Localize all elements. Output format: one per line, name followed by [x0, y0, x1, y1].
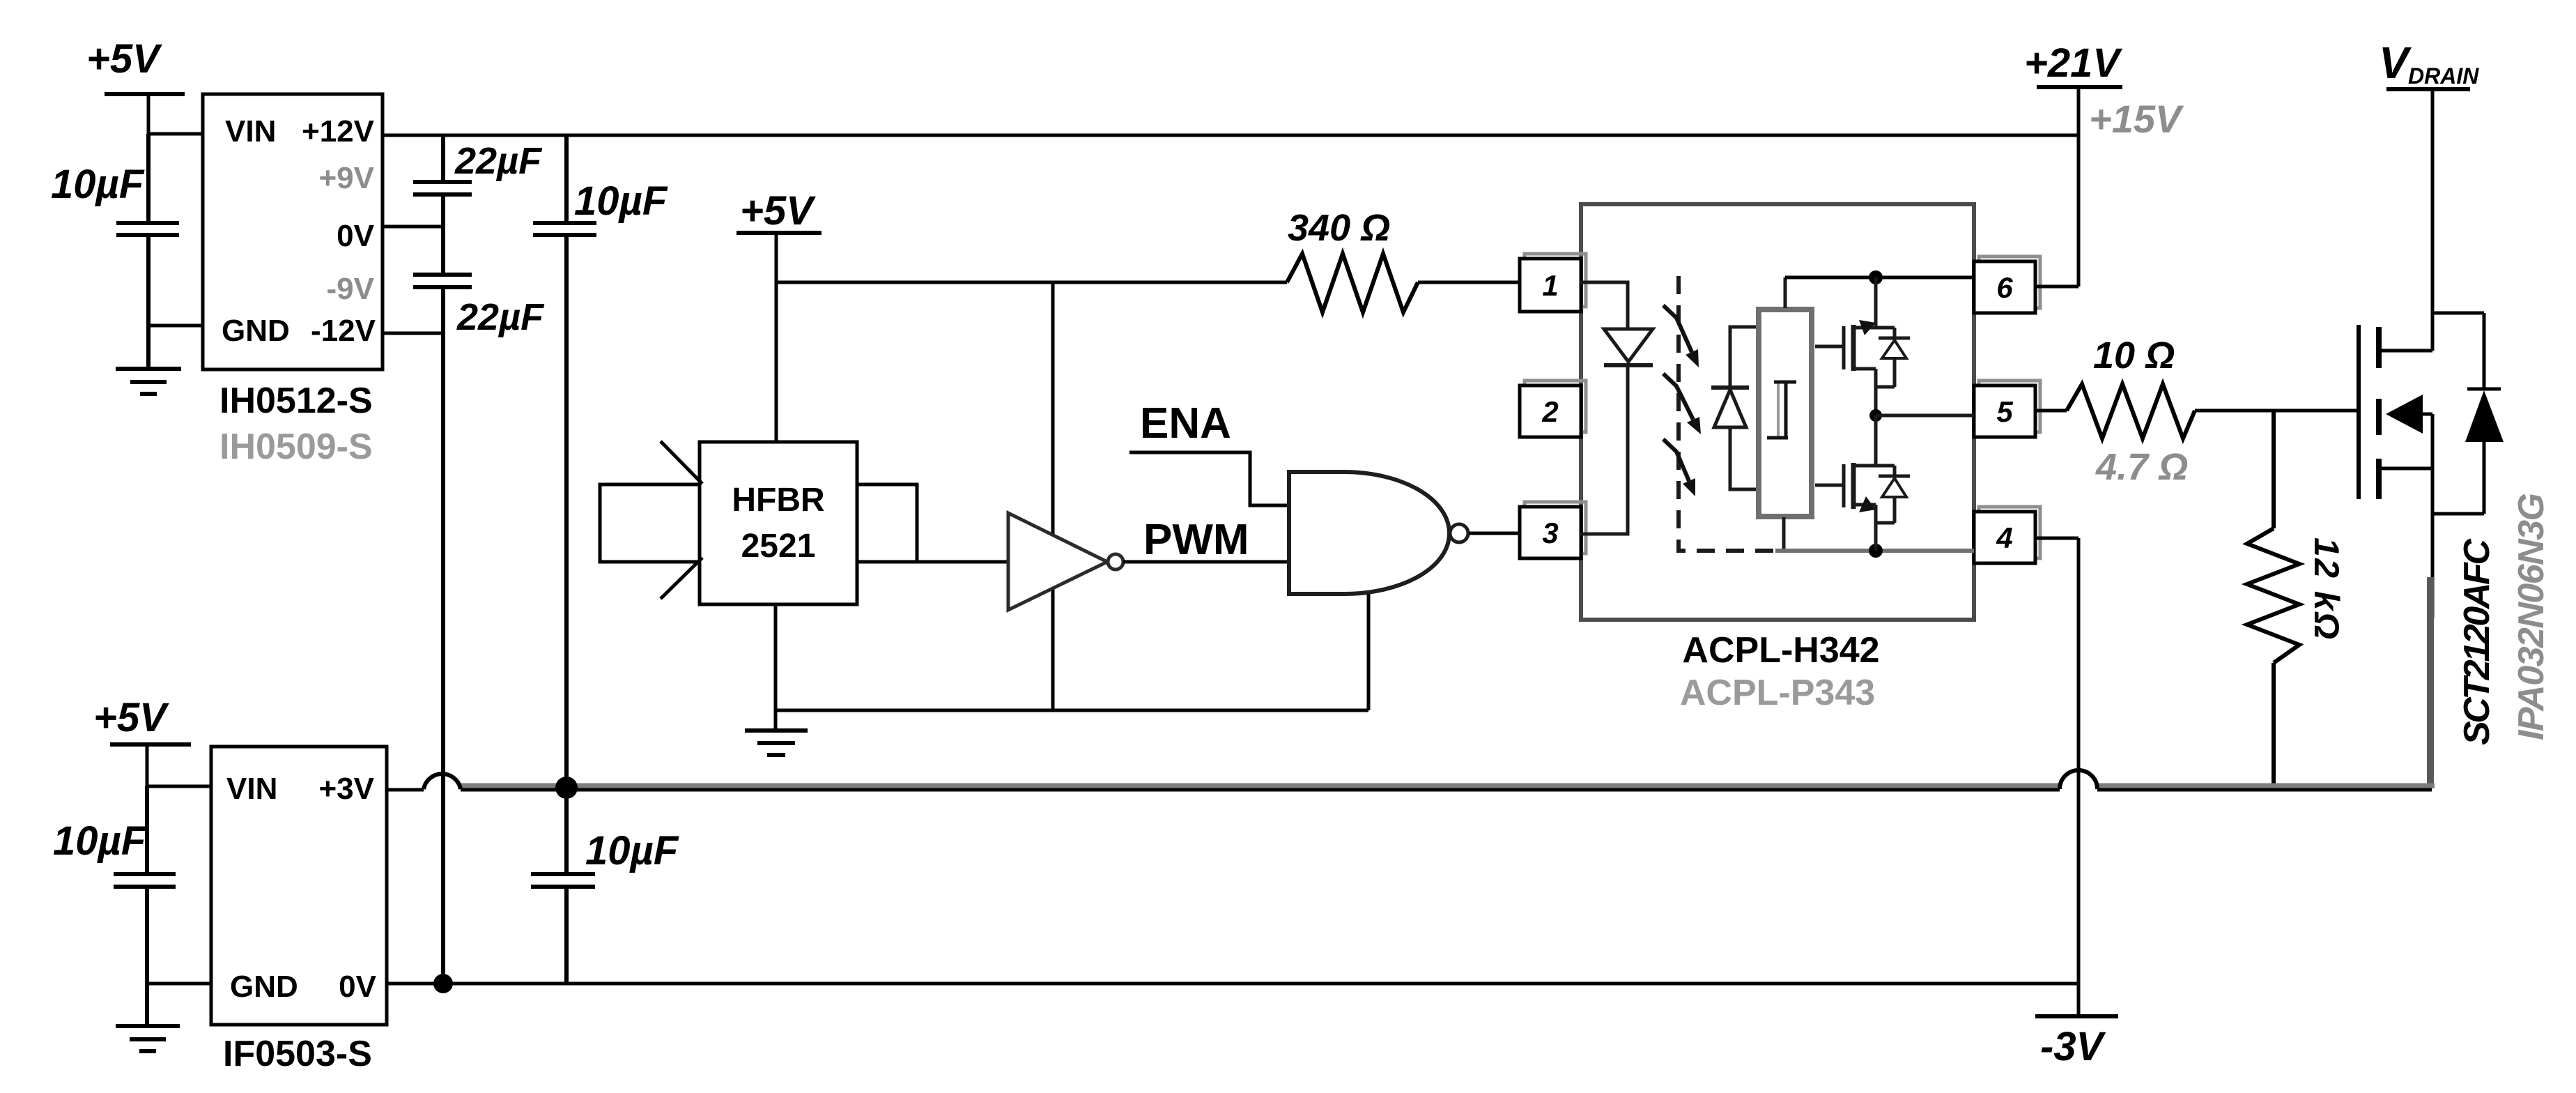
- svg-text:-3V: -3V: [2040, 1024, 2106, 1069]
- svg-text:-12V: -12V: [311, 314, 376, 348]
- pin 1 box: [1520, 254, 1586, 312]
- wire HFBR fiber tick bottom: [661, 558, 702, 599]
- resistor R1 340 ohm: [1287, 207, 1418, 312]
- svg-text:0V: 0V: [337, 219, 374, 253]
- svg-text:GND: GND: [230, 970, 298, 1004]
- DC-DC converter U1 IH0512-S: [203, 94, 383, 467]
- svg-text:10µF: 10µF: [574, 178, 668, 224]
- wire logic ground rail: [776, 709, 1368, 712]
- wire HFBR fiber tick top: [661, 441, 702, 484]
- svg-text:+5V: +5V: [93, 695, 169, 740]
- ground (top-left): [116, 326, 181, 394]
- wire GND pin to rail: [148, 324, 203, 328]
- diode D4 lower body diode: [1876, 466, 1910, 523]
- svg-text:22µF: 22µF: [454, 140, 543, 182]
- wire amp bottom leg: [1782, 517, 1786, 551]
- wire pin5 to R2: [2035, 409, 2067, 413]
- wire pin6 to +21V: [2035, 285, 2078, 289]
- wire photodiode bottom to amp: [1730, 427, 1759, 489]
- wire photodiode top to amp: [1730, 327, 1759, 388]
- wire +5V down to HFBR: [775, 282, 778, 442]
- wire R1 to pin1: [1418, 281, 1520, 284]
- svg-text:DRAIN: DRAIN: [2408, 63, 2479, 89]
- svg-text:6: 6: [1996, 271, 2013, 304]
- wire R2 to gate: [2195, 409, 2359, 413]
- svg-text:GND: GND: [222, 314, 290, 348]
- svg-text:HFBR: HFBR: [732, 482, 824, 519]
- wire GND pin (bottom): [147, 982, 211, 986]
- node -3V supply: [2035, 1016, 2118, 1069]
- diode D5 body diode: [2432, 313, 2504, 514]
- wire LED to pin3: [1580, 365, 1628, 534]
- isolation barrier (dashed): [1679, 276, 1775, 551]
- wire amp top to vdd rail: [1784, 277, 1787, 308]
- pin 6 box: [1974, 257, 2040, 313]
- pin 5 box: [1974, 381, 2040, 437]
- fiber receiver U2 HFBR 2521: [700, 442, 857, 604]
- svg-text:1: 1: [1542, 269, 1558, 302]
- node +5V (bottom-left): [93, 695, 191, 744]
- wire NAND ground stem: [1367, 594, 1371, 710]
- svg-text:+5V: +5V: [740, 188, 816, 234]
- svg-text:+5V: +5V: [86, 36, 162, 82]
- svg-text:10µF: 10µF: [53, 818, 147, 864]
- svg-text:VIN: VIN: [226, 772, 277, 806]
- wire NAND output to pin3: [1469, 532, 1520, 535]
- DC-DC converter U6 IF0503-S: [211, 747, 387, 1074]
- node VDRAIN supply: [2379, 38, 2479, 89]
- svg-text:IH0509-S: IH0509-S: [219, 427, 373, 467]
- resistor R3 12 kohm: [2247, 411, 2346, 787]
- light arrow 2: [1663, 374, 1701, 434]
- svg-text:+9V: +9V: [318, 161, 374, 195]
- wire internal vdd rail: [1785, 276, 1974, 280]
- transistor Q1 upper driver: [1815, 277, 1895, 415]
- wire 0V return rail: [387, 982, 2078, 986]
- wire vertical supply-to-ground (x1511): [1051, 282, 1055, 710]
- wire ENA input: [1129, 452, 1289, 505]
- transistor Q3 power mosfet: [2359, 325, 2432, 618]
- inverter U3: [1008, 513, 1123, 610]
- wire HFBR left loop: [600, 484, 700, 562]
- svg-text:IF0503-S: IF0503-S: [223, 1034, 372, 1074]
- light arrow 3: [1663, 439, 1695, 496]
- wire mid node to pin5: [1876, 414, 1974, 418]
- svg-text:+15V: +15V: [2089, 97, 2184, 141]
- svg-text:V: V: [2379, 38, 2412, 88]
- capacitor C2 22uF: [413, 135, 543, 275]
- wire +3V/source rail black: [387, 788, 2432, 792]
- capacitor C4 10uF (top-center): [533, 135, 668, 784]
- pin 4 box: [1974, 507, 2040, 563]
- pin 2 box: [1520, 381, 1586, 437]
- capacitor C3 22uF: [413, 275, 545, 984]
- wire internal vee rail (grey): [1775, 549, 1974, 553]
- wire 0V pin: [383, 225, 443, 229]
- svg-text:3: 3: [1542, 517, 1558, 549]
- wire -12V pin: [383, 332, 443, 335]
- svg-text:ENA: ENA: [1140, 399, 1231, 448]
- light arrow 1: [1663, 305, 1699, 367]
- svg-text:10 Ω: 10 Ω: [2093, 335, 2175, 376]
- svg-text:IPA032N06N3G: IPA032N06N3G: [2511, 493, 2552, 740]
- svg-text:PWM: PWM: [1143, 516, 1249, 564]
- wire pin1 to LED: [1580, 282, 1628, 329]
- amplifier block U5a: [1759, 309, 1812, 517]
- node +21V supply: [2024, 40, 2122, 87]
- wire HFBR ground stem: [774, 604, 778, 731]
- wire drain stem: [2431, 89, 2435, 351]
- svg-text:2521: 2521: [741, 528, 816, 565]
- photodiode D2: [1711, 388, 1749, 427]
- nand gate U4: [1289, 472, 1468, 594]
- node junction 0V/C2 chain: [433, 974, 453, 993]
- pin 3 box: [1520, 502, 1586, 558]
- resistor R2 10 ohm: [2067, 335, 2195, 488]
- diode D1 input LED: [1604, 329, 1653, 365]
- wire +12V rail (y194): [383, 134, 2078, 137]
- svg-text:2: 2: [1541, 395, 1558, 428]
- wire HFBR output to inverter: [857, 560, 1008, 564]
- svg-text:+3V: +3V: [318, 772, 374, 806]
- svg-text:10µF: 10µF: [51, 162, 145, 207]
- wire hop over pin4 drop: [2060, 770, 2097, 789]
- svg-text:340 Ω: 340 Ω: [1288, 207, 1390, 249]
- svg-text:IH0512-S: IH0512-S: [219, 381, 373, 421]
- capacitor C1 10uF (top-left): [51, 134, 179, 326]
- svg-text:SCT2120AFC: SCT2120AFC: [2457, 538, 2497, 745]
- svg-text:ACPL-P343: ACPL-P343: [1680, 673, 1875, 713]
- capacitor C5 10uF (bottom-left): [53, 786, 176, 984]
- node mid junction: [1869, 409, 1882, 422]
- svg-text:4: 4: [1996, 521, 2012, 554]
- wire +5V to VIN: [148, 94, 203, 134]
- svg-text:22µF: 22µF: [456, 296, 545, 338]
- node junction rail/C4: [555, 777, 578, 799]
- svg-text:12 kΩ: 12 kΩ: [2307, 537, 2346, 639]
- svg-text:ACPL-H342: ACPL-H342: [1682, 630, 1879, 671]
- svg-text:0V: 0V: [339, 970, 376, 1004]
- wire +5V stem and logic supply: [776, 233, 1287, 282]
- wire PWM (inverter out to NAND): [1123, 560, 1289, 564]
- svg-text:10µF: 10µF: [585, 828, 679, 873]
- node junction vdd: [1869, 270, 1883, 284]
- svg-text:5: 5: [1996, 395, 2013, 428]
- node +5V (top-left): [86, 36, 185, 94]
- ground (bottom-left): [116, 984, 180, 1051]
- wire +5V to VIN (bottom): [147, 744, 211, 786]
- svg-text:+21V: +21V: [2024, 40, 2122, 86]
- wire hop over 22uF chain: [424, 774, 461, 789]
- ground (logic): [745, 731, 808, 755]
- wire source heavy vertical: [2427, 577, 2434, 788]
- wire pin4 to -3V: [2035, 538, 2078, 1016]
- wire HFBR right step: [857, 484, 917, 562]
- svg-text:+12V: +12V: [302, 114, 375, 148]
- diode D3 upper body diode: [1876, 328, 1910, 387]
- wire source return rail heavy grey: [461, 784, 2435, 788]
- wire +21V stem: [2077, 87, 2081, 286]
- node junction vee: [1869, 544, 1883, 558]
- svg-text:-9V: -9V: [327, 272, 375, 306]
- svg-text:VIN: VIN: [225, 114, 276, 148]
- svg-text:4.7 Ω: 4.7 Ω: [2095, 446, 2188, 488]
- capacitor C6 10uF (bottom-center): [531, 788, 679, 984]
- opto-coupler U5 body: [1581, 204, 1974, 620]
- node +5V (middle): [736, 188, 822, 234]
- transistor Q2 lower driver: [1815, 415, 1895, 551]
